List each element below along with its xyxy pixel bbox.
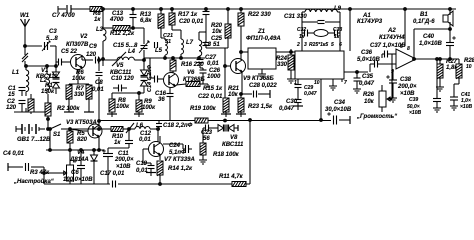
wire left ground rail [14,108,50,112]
wire V3 base [70,129,83,131]
svg-text:100к: 100к [116,104,130,110]
node bus-R8 junction [132,8,135,11]
capacitor C41 1.0x10V [450,84,472,110]
svg-text:R22 330: R22 330 [248,12,271,18]
svg-text:„Громкость“: „Громкость“ [356,114,397,120]
resistor R20 10k [211,8,231,48]
svg-text:1,0×10В: 1,0×10В [419,41,443,47]
svg-text:200,0×: 200,0× [397,84,417,90]
capacitor C4 0.01 [3,151,44,184]
resistor R2 100k [45,94,80,129]
capacitor C14 6.2pF [147,64,158,92]
trimmer capacitor C3 5..8 [25,29,58,62]
capacitor C17 0.01 (inline bottom wire) [100,171,125,188]
svg-text:B1: B1 [420,12,428,18]
IC A1 K174UR3 [295,13,383,79]
svg-text:R19 100к: R19 100к [190,106,217,112]
resistor R15 1k [176,82,223,101]
capacitor C21 51 [155,33,174,48]
svg-text:R26: R26 [363,92,375,98]
svg-text:C3: C3 [49,29,57,35]
svg-text:1к: 1к [94,17,101,23]
svg-text:1к: 1к [114,140,121,146]
svg-text:R25*1к5: R25*1к5 [309,42,328,48]
svg-text:C36: C36 [361,50,373,56]
transistor V6 KT368B [158,70,205,88]
capacitor C5 22 [56,49,78,66]
svg-text:51: 51 [213,42,220,48]
svg-text:КТ368Б: КТ368Б [183,77,205,83]
svg-text:1: 1 [294,80,297,86]
svg-text:R18 100к: R18 100к [213,152,240,158]
svg-text:C40: C40 [423,34,435,40]
capacitor C1 15 [8,86,26,98]
svg-text:L3: L3 [96,27,104,33]
capacitor C23 56 [201,125,213,143]
capacitor C38 200.0x10V [386,69,417,102]
svg-text:L7: L7 [186,40,194,46]
inductor L8 [199,32,212,58]
resistor R9 100k [134,93,156,117]
svg-text:10к: 10к [364,99,375,105]
capacitor C2 120 [6,99,26,112]
svg-text:C17 0,01: C17 0,01 [100,171,125,177]
inductor L5 [155,38,168,58]
speaker B1 0.1GD-6 [413,8,453,31]
svg-text:V7 КТ339А: V7 КТ339А [164,157,195,163]
wire input node [24,45,56,68]
ceramic filter Z1 FP1P-0.49A [240,29,281,78]
wire supply drop to A1 [349,8,352,51]
resistor R28 10 [454,58,474,84]
svg-text:C39: C39 [409,97,418,103]
svg-text:0,01: 0,01 [92,87,104,93]
svg-text:100,0×10В: 100,0×10В [63,177,93,183]
svg-text:R17 1к: R17 1к [178,12,198,18]
svg-text:C34: C34 [334,100,346,106]
wire antenna break [22,53,28,66]
resistor R12 2.2k [103,26,144,38]
inductor L2 [40,66,50,94]
wire oscillator tuning line [62,128,135,131]
varicap V5 KVS111 with C10 [110,63,148,93]
wire supply drop to A2 [404,8,407,46]
resistor R14 1.2k [157,161,193,185]
resistor R27 1.8k [436,58,458,91]
capacitor C11 200.0x10V [102,148,134,184]
svg-text:C20 0,01: C20 0,01 [179,19,204,25]
svg-text:R14 1,2к: R14 1,2к [168,166,193,172]
resistor R8 1k (inline on bus) [90,7,102,24]
capacitor C7 4700 (inline, top-left) [52,5,77,19]
capacitor C34 30.0x10V [325,100,352,125]
svg-text:120: 120 [6,105,17,111]
svg-text:36: 36 [158,97,165,103]
wire A1 top pins [302,22,340,51]
svg-text:C9: C9 [89,44,97,50]
switch S1 [47,124,70,138]
wire Z1 to A1 [276,49,295,53]
svg-text:L4: L4 [128,49,136,55]
svg-text:C4 0,01: C4 0,01 [3,151,25,157]
svg-text:0,01: 0,01 [207,61,219,67]
svg-text:6,8к: 6,8к [140,18,152,24]
wire A1 pin7 [342,71,368,82]
inductor L1 [12,66,29,96]
svg-text:30,0×10В: 30,0×10В [325,107,352,113]
svg-text:V2: V2 [80,34,88,40]
resistor R10 1k (inline) [111,127,124,147]
svg-text:C10 120: C10 120 [111,76,134,82]
wire A1 pin7 to filter [343,69,345,71]
A1 pin labels [294,42,347,86]
battery GB1 7..12V [16,124,51,143]
resistor R1 150k [28,83,55,114]
svg-text:C18 2,2пФ: C18 2,2пФ [163,123,193,129]
transistor V7 KT339A [143,136,195,163]
varicap V8 KVS111 [212,120,244,148]
ground A1 [329,79,337,90]
svg-text:0,1ГД-6: 0,1ГД-6 [413,19,435,25]
inductor L7 [172,30,194,58]
wire lower-left rail [46,128,104,152]
wire top supply bus [58,6,456,12]
svg-text:C28 0,022: C28 0,022 [249,83,277,89]
svg-text:1к: 1к [299,34,305,40]
capacitor C12 0.01 [108,129,152,148]
svg-text:L8: L8 [204,42,212,48]
resistor R18 100k [199,131,240,164]
svg-text:C14 6,2пФ: C14 6,2пФ [147,64,153,92]
capacitor C37 1.0x10V [370,43,406,58]
capacitor C32 [297,27,311,40]
wire volume wiper [382,54,392,99]
svg-text:51: 51 [165,39,171,45]
svg-text:200,0×: 200,0× [114,157,134,163]
transistor V2 KP307V (FET) [66,34,89,70]
svg-text:15: 15 [8,92,15,98]
svg-text:0,047: 0,047 [279,106,295,112]
svg-text:10к: 10к [212,29,223,35]
resistor R11 4.7k (inline) [219,174,246,187]
capacitor C18 2.2pF (vertical link) [156,121,193,130]
resistor R17 1k [169,8,198,30]
svg-text:C31 330: C31 330 [284,14,307,20]
transistor V9 KT368B [225,56,274,94]
svg-text:W1: W1 [20,13,30,19]
svg-text:5...8: 5...8 [46,36,58,42]
potentiometer R3 47k tuning [13,150,74,185]
resistor R16 220 [170,58,204,71]
svg-text:R16 220: R16 220 [181,62,204,68]
resistor R21 10k [221,86,240,117]
capacitor C30 0.047 [279,99,303,112]
svg-text:330: 330 [277,62,288,68]
svg-text:Д814А: Д814А [69,157,89,163]
resistor R8' 100k bias [107,93,130,117]
capacitor C26 1000 [200,68,222,84]
svg-text:1к: 1к [334,34,340,40]
capacitor C31 330 and L9 [284,6,342,24]
wire A2 output [416,58,459,61]
capacitor C33 [331,27,342,40]
quartz resonator ZQ1 [311,30,331,37]
svg-text:К174УР3: К174УР3 [357,19,383,25]
capacitor C20 0.01 [179,8,210,25]
capacitor C6 100.0x10V [63,150,93,184]
svg-text:C32: C32 [297,27,306,33]
svg-text:V6: V6 [187,70,195,76]
svg-text:L5: L5 [155,48,163,54]
svg-text:3: 3 [304,42,307,48]
wire IF commons [144,57,205,78]
capacitor C29 0.047 [295,79,317,99]
capacitor C36 5.0x10V [357,50,396,72]
svg-text:0,01: 0,01 [136,168,148,174]
svg-text:R23 1,5к: R23 1,5к [248,104,273,110]
trimmer capacitor C15 5..8 [113,28,149,61]
svg-text:10: 10 [466,64,472,70]
wire x99 column [98,57,101,129]
svg-text:C19: C19 [136,161,148,167]
svg-text:C33: C33 [333,27,342,33]
capacitor C35 0.047 [353,72,375,93]
capacitor C25 51 [203,15,229,48]
capacitor C16 36 [155,88,174,120]
wire bottom rail left segment [44,183,250,185]
svg-text:C7 4700: C7 4700 [52,13,75,19]
svg-text:5,1пФ: 5,1пФ [169,150,186,156]
capacitor C13 4700 [109,9,137,29]
svg-text:4700: 4700 [109,17,124,23]
svg-text:КП307В: КП307В [66,42,89,48]
wire R3 wiper [43,172,60,175]
svg-text:К174УН4: К174УН4 [379,35,405,41]
resistor R5 820 [67,129,88,150]
svg-text:A2: A2 [387,28,396,34]
svg-text:R15 1к: R15 1к [203,86,223,92]
antenna W1 [20,13,30,54]
svg-text:V8: V8 [230,135,238,141]
capacitor C8 0.01 [92,73,127,94]
svg-text:7: 7 [344,80,347,86]
svg-text:0,01: 0,01 [139,137,151,143]
svg-text:S1: S1 [53,132,61,138]
potentiometer R26 10k volume [356,88,397,120]
wire A1 pin14 down [320,79,323,121]
capacitor C27 0.01 [197,55,220,68]
svg-text:100к: 100к [72,76,86,82]
op-amp A2 K174UN4 [379,28,416,75]
inductor L4 [99,49,144,66]
svg-text:C6: C6 [71,170,79,176]
svg-text:C22 0,01: C22 0,01 [198,94,223,100]
svg-text:C5 22: C5 22 [61,49,78,55]
svg-text:V9 КТ368Б: V9 КТ368Б [243,76,274,82]
svg-text:×10В: ×10В [460,104,472,110]
svg-text:V5: V5 [116,63,124,69]
svg-text:10: 10 [314,80,320,86]
svg-text:330: 330 [74,92,85,98]
svg-text:10к: 10к [228,92,239,98]
capacitor C40 1.0x10V [419,29,456,59]
svg-text:R11 4,7к: R11 4,7к [219,174,244,180]
wire y93 rail [112,92,144,95]
svg-text:100к: 100к [142,105,156,111]
resistor R6 100k [69,70,89,84]
zener V4 D814A [69,150,98,184]
svg-text:C35: C35 [362,74,374,80]
capacitor C19 0.01 [136,149,156,176]
transistor V3 KT503A [66,120,102,148]
svg-text:R12 2,2к: R12 2,2к [110,31,135,37]
resistor R23 1.5k [236,93,273,117]
resistor R13 6.8k [140,8,165,38]
svg-text:56: 56 [203,136,210,142]
svg-text:0,047: 0,047 [304,91,317,97]
inductor L6 [126,123,160,142]
svg-text:GB1 7...12В: GB1 7...12В [17,137,51,143]
capacitor C24 5.1pF [163,143,192,156]
svg-text:820: 820 [77,137,88,143]
resistor R22 330 [238,8,271,56]
svg-text:×10В: ×10В [409,110,421,116]
wire speaker return [413,29,450,60]
capacitor C28 0.022 [242,83,277,98]
svg-text:8: 8 [407,46,410,52]
svg-text:ФП1П-0,49А: ФП1П-0,49А [246,36,281,42]
svg-text:0,047: 0,047 [359,81,375,87]
capacitor C9 120 [82,44,103,64]
svg-text:2: 2 [296,42,300,48]
resistor R19 100k (inline) [99,106,331,123]
svg-text:L1: L1 [12,70,20,76]
svg-text:C38: C38 [400,77,412,83]
wire tuning feedback [249,119,252,184]
capacitor C39 50.0x10V [407,58,441,116]
svg-text:КВС111: КВС111 [222,142,244,148]
wire mixer column [102,8,106,66]
svg-text:C37 1,0×10В: C37 1,0×10В [370,43,406,49]
resistor R24 330 [276,52,295,83]
resistor R7 330 and bias pair [64,84,94,112]
svg-text:5: 5 [331,42,334,48]
wire V9 base caps [206,44,226,98]
svg-text:1000: 1000 [207,74,221,80]
varicap V1 KVS111 [36,62,60,94]
svg-text:Z1: Z1 [257,29,266,35]
svg-text:×10В: ×10В [116,164,131,170]
